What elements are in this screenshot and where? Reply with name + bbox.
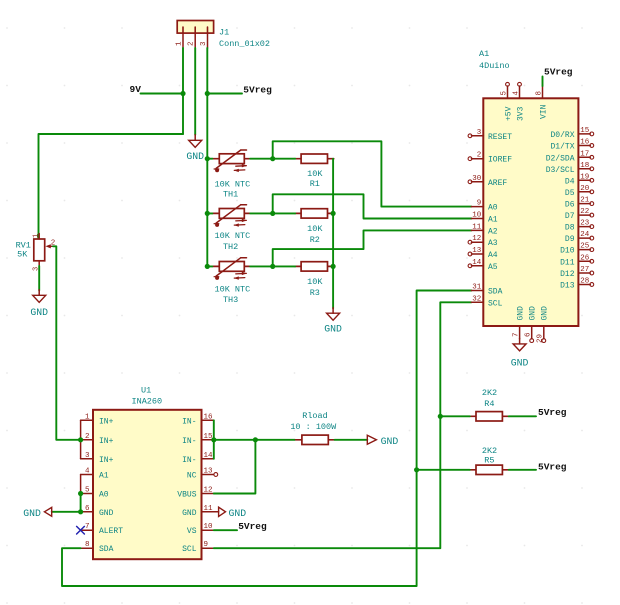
svg-text:R4: R4: [484, 399, 494, 409]
svg-text:SCL: SCL: [182, 545, 197, 554]
svg-text:GND: GND: [324, 323, 342, 334]
A1 pin 19 D4: [565, 173, 594, 186]
svg-text:RESET: RESET: [488, 133, 512, 142]
svg-text:23: 23: [580, 220, 590, 228]
U1 pin 6 GND: [81, 505, 114, 518]
resistor Rload: [296, 435, 335, 444]
wire VIN to 5Vreg: [542, 77, 544, 87]
svg-text:5Vreg: 5Vreg: [538, 461, 567, 472]
svg-text:GND: GND: [511, 357, 529, 368]
svg-text:10K NTC: 10K NTC: [215, 179, 251, 189]
svg-text:12: 12: [472, 235, 481, 243]
U1 pin 1 IN+: [81, 413, 114, 426]
svg-text:GND: GND: [99, 509, 114, 518]
svg-text:11: 11: [472, 223, 482, 231]
svg-text:INA260: INA260: [132, 397, 163, 407]
A1 pin 28 D13: [560, 278, 594, 291]
svg-text:3: 3: [85, 452, 90, 460]
svg-text:A4: A4: [488, 251, 498, 260]
resistor R5: [470, 465, 509, 474]
svg-text:TH2: TH2: [223, 242, 238, 252]
svg-text:6: 6: [524, 332, 532, 337]
svg-text:A5: A5: [488, 263, 498, 272]
svg-text:TH1: TH1: [223, 190, 238, 200]
svg-text:24: 24: [580, 231, 590, 239]
svg-text:U1: U1: [141, 385, 151, 395]
wire RV1 wiper to U1: [53, 246, 80, 439]
svg-text:13: 13: [472, 247, 482, 255]
junction R5 SDA node: [414, 467, 419, 472]
svg-text:8: 8: [85, 541, 90, 549]
svg-text:VIN: VIN: [539, 104, 548, 119]
junction TH1 left: [205, 156, 210, 161]
svg-text:5Vreg: 5Vreg: [538, 407, 567, 418]
thermistor TH2: [212, 205, 249, 227]
svg-text:D12: D12: [560, 270, 575, 279]
wire R1 R2 R3 to ground: [332, 159, 334, 309]
junction R2 right: [331, 211, 336, 216]
junction TH2-R2 node: [270, 211, 275, 216]
U1 pin 15 IN-: [182, 433, 214, 446]
label 5Vreg at R4: [538, 407, 567, 418]
R2 reference label: [310, 235, 320, 245]
svg-text:GND: GND: [23, 508, 41, 519]
junction R3 right: [331, 264, 336, 269]
svg-text:1: 1: [176, 41, 184, 46]
svg-text:5Vreg: 5Vreg: [544, 67, 573, 78]
wire J1 pin3 down: [206, 48, 208, 266]
junction 9V pin1: [180, 91, 185, 96]
A1 pin 13 A4: [468, 247, 498, 260]
svg-text:3: 3: [200, 41, 208, 46]
A1 pin 31 SDA: [471, 284, 502, 297]
wire net SCL: [214, 302, 472, 548]
svg-text:2K2: 2K2: [482, 388, 497, 398]
U1 reference label: [141, 385, 151, 395]
J1 reference label: [219, 28, 229, 38]
wire U1 A0-GND bracket: [80, 494, 82, 512]
svg-text:D1/TX: D1/TX: [550, 143, 574, 152]
label 5Vreg top: [243, 84, 272, 95]
R3 reference label: [310, 288, 320, 298]
A1 pin 17 D2/SDA: [546, 150, 594, 163]
svg-text:5K: 5K: [17, 249, 28, 259]
svg-text:R3: R3: [310, 288, 320, 298]
svg-text:9: 9: [477, 200, 482, 208]
A1 pin 15 D0/RX: [550, 127, 593, 140]
label 5Vreg at VIN: [544, 67, 573, 78]
connector J1 body: [177, 21, 213, 34]
U1 pin 16 IN-: [182, 413, 214, 426]
ground GND under J1: [186, 135, 204, 162]
TH2 reference label: [223, 242, 238, 252]
svg-text:GND: GND: [529, 306, 538, 321]
A1 pin 20 D5: [565, 185, 594, 198]
power label GND right of Rload: [367, 435, 398, 447]
svg-text:D11: D11: [560, 258, 575, 267]
svg-text:2: 2: [85, 433, 90, 441]
svg-text:D10: D10: [560, 247, 575, 256]
R3 value label: [307, 277, 323, 287]
A1 pin 5 +5V: [501, 82, 514, 121]
thermistor TH3: [212, 258, 249, 280]
svg-text:A0: A0: [99, 491, 109, 500]
ground GND under RV1: [30, 290, 48, 318]
svg-text:32: 32: [472, 295, 481, 303]
svg-text:5Vreg: 5Vreg: [238, 521, 267, 532]
A1 pin 30 AREF: [468, 175, 507, 188]
svg-text:D6: D6: [565, 201, 575, 210]
svg-text:1: 1: [33, 234, 41, 238]
svg-text:D13: D13: [560, 282, 575, 291]
A1 pin 18 D3/SCL: [546, 162, 594, 175]
svg-text:A1: A1: [479, 49, 489, 59]
no-connect X on U1 ALERT: [77, 526, 85, 534]
U1 pin 12 VBUS: [177, 487, 214, 500]
svg-text:10K: 10K: [307, 169, 323, 179]
wire R5 to 5Vreg: [509, 469, 536, 471]
U1 pin 9 SCL: [182, 541, 214, 554]
svg-text:4Duino: 4Duino: [479, 61, 510, 71]
svg-text:4: 4: [513, 91, 521, 96]
wire net A1: [273, 194, 472, 218]
svg-text:3V3: 3V3: [516, 106, 525, 121]
TH3 reference label: [223, 295, 238, 305]
A1 pin 6 GND: [524, 306, 537, 343]
TH3 value label: [215, 284, 251, 294]
A1 pin 27 D12: [560, 266, 594, 279]
svg-text:3: 3: [477, 129, 482, 137]
wire U1 A1-A0 bracket: [80, 475, 82, 494]
RV1 pin 1 number: [33, 234, 41, 238]
wire RV1 bottom: [38, 266, 40, 291]
R5 value label: [482, 446, 497, 456]
svg-text:IN-: IN-: [182, 456, 196, 465]
U1 pin 8 SDA: [81, 541, 114, 554]
svg-text:21: 21: [580, 197, 590, 205]
TH1 value label: [215, 179, 251, 189]
wire TH1 to R1: [250, 158, 295, 160]
resistor R3: [295, 262, 334, 271]
label 5Vreg at VS: [238, 521, 267, 532]
svg-text:30: 30: [472, 175, 482, 183]
svg-text:SCL: SCL: [488, 299, 503, 308]
svg-text:IOREF: IOREF: [488, 156, 512, 165]
svg-text:J1: J1: [219, 28, 229, 38]
svg-text:31: 31: [472, 284, 482, 292]
RV1 pin 2 number: [51, 239, 56, 247]
U1 pin 4 A1: [81, 468, 109, 481]
svg-text:GND: GND: [229, 508, 247, 519]
junction TH3-R3 node: [270, 264, 275, 269]
A1 pin 8 VIN: [536, 86, 549, 119]
U1 pin 13 NC: [187, 468, 218, 481]
svg-text:A1: A1: [488, 216, 498, 225]
svg-text:R5: R5: [484, 455, 494, 465]
svg-text:5: 5: [501, 91, 509, 96]
svg-text:GND: GND: [182, 509, 197, 518]
wire pin1 to RV1: [39, 134, 184, 239]
A1 pin 21 D6: [565, 197, 594, 210]
svg-text:ALERT: ALERT: [99, 527, 123, 536]
wire net A0: [273, 141, 472, 206]
svg-text:10 : 100W: 10 : 100W: [290, 422, 337, 432]
svg-text:14: 14: [472, 259, 482, 267]
svg-text:NC: NC: [187, 472, 197, 481]
junction U1 IN+ node: [78, 437, 83, 442]
svg-text:1: 1: [85, 413, 90, 421]
svg-text:7: 7: [512, 332, 520, 337]
svg-text:10K NTC: 10K NTC: [215, 284, 251, 294]
junction pin3 5Vreg: [205, 91, 210, 96]
A1 pin 9 A0: [471, 200, 497, 213]
wire J1 pin1 down: [182, 48, 184, 134]
svg-text:IN-: IN-: [182, 417, 196, 426]
thermistor TH1: [212, 150, 249, 172]
A1 pin 24 D9: [565, 231, 594, 244]
svg-text:14: 14: [204, 452, 214, 460]
R1 reference label: [310, 179, 320, 189]
svg-text:R2: R2: [310, 235, 320, 245]
svg-text:8: 8: [536, 91, 544, 96]
svg-text:D5: D5: [565, 189, 575, 198]
A1 pin 11 A2: [471, 223, 497, 236]
svg-text:D8: D8: [565, 224, 575, 233]
U1 pin 10 VS: [187, 523, 214, 536]
TH1 reference label: [223, 190, 238, 200]
U1 pin 3 IN+: [81, 452, 114, 465]
svg-text:6: 6: [85, 505, 90, 513]
svg-text:25: 25: [580, 243, 590, 251]
Rload value label: [290, 422, 337, 432]
svg-text:A1: A1: [99, 472, 109, 481]
A1 pin 12 A3: [468, 235, 498, 248]
svg-text:GND: GND: [381, 436, 399, 447]
IC A1 4Duino body: [483, 98, 578, 326]
junction Rload left node: [253, 437, 258, 442]
svg-text:10: 10: [204, 523, 214, 531]
wire Rload to GND: [335, 439, 368, 441]
RV1 reference label: [16, 240, 31, 250]
junction TH3 left: [205, 264, 210, 269]
A1 pin 26 D11: [560, 254, 594, 267]
svg-text:18: 18: [580, 162, 589, 170]
A1 pin 23 D8: [565, 220, 594, 233]
svg-text:R1: R1: [310, 179, 320, 189]
wire SDA to R5: [417, 469, 470, 471]
wire TH1 left: [207, 158, 212, 160]
A1 pin 16 D1/TX: [550, 139, 593, 152]
svg-text:9V: 9V: [130, 84, 142, 95]
svg-text:A0: A0: [488, 204, 498, 213]
A1 pin 2 IOREF: [468, 152, 512, 165]
svg-text:16: 16: [204, 413, 214, 421]
label 5Vreg at R5: [538, 461, 567, 472]
svg-text:20: 20: [580, 185, 590, 193]
wire TH2 to R2: [250, 212, 295, 214]
svg-text:A3: A3: [488, 239, 498, 248]
A1 pin 32 SCL: [471, 295, 502, 308]
svg-text:10K: 10K: [307, 277, 323, 287]
svg-text:2: 2: [477, 152, 482, 160]
power label GND at U1 pin11: [214, 507, 246, 519]
svg-text:5Vreg: 5Vreg: [243, 84, 272, 95]
svg-text:VBUS: VBUS: [177, 491, 196, 500]
svg-text:TH3: TH3: [223, 295, 238, 305]
RV1 value label: [17, 249, 28, 259]
svg-text:GND: GND: [541, 306, 550, 321]
J1 pin 2 stub: [188, 33, 196, 48]
A1 pin 3 RESET: [468, 129, 512, 142]
R2 value label: [307, 224, 323, 234]
junction U1 GND node: [78, 509, 83, 514]
svg-text:19: 19: [580, 173, 589, 181]
svg-text:IN+: IN+: [99, 417, 114, 426]
svg-text:22: 22: [580, 208, 589, 216]
svg-text:Conn_01x02: Conn_01x02: [219, 39, 270, 49]
U1 pin 11 GND: [182, 505, 214, 518]
svg-text:GND: GND: [516, 306, 525, 321]
svg-text:IN-: IN-: [182, 437, 196, 446]
A1 pin 25 D10: [560, 243, 594, 256]
resistor R2: [295, 209, 334, 218]
wire TH2 left: [207, 212, 212, 214]
J1 pin 3 stub: [200, 33, 208, 48]
svg-text:+5V: +5V: [504, 106, 513, 121]
R1 value label: [307, 169, 323, 179]
svg-text:Rload: Rload: [302, 411, 328, 421]
op-amp U1 body: [93, 410, 202, 559]
junction TH2 left: [205, 211, 210, 216]
svg-text:AREF: AREF: [488, 179, 507, 188]
svg-text:D0/RX: D0/RX: [550, 131, 574, 140]
A1 value label: [479, 61, 510, 71]
svg-text:16: 16: [580, 139, 590, 147]
A1 pin 7 GND: [512, 306, 525, 339]
wire VBUS to node: [214, 440, 256, 494]
wire pin3 to 5Vreg: [207, 93, 242, 95]
svg-text:D2/SDA: D2/SDA: [546, 154, 575, 163]
svg-text:9: 9: [204, 541, 209, 549]
svg-text:28: 28: [580, 278, 589, 286]
resistor R1: [295, 154, 334, 163]
resistor R4: [470, 412, 509, 421]
R5 reference label: [484, 455, 494, 465]
wire TH3 to R3: [250, 265, 295, 267]
svg-text:GND: GND: [186, 151, 204, 162]
svg-text:VS: VS: [187, 527, 197, 536]
junction TH1-R1 node: [270, 156, 275, 161]
A1 pin 14 A5: [468, 259, 498, 272]
A1 pin 22 D7: [565, 208, 594, 221]
svg-text:11: 11: [204, 505, 214, 513]
svg-text:IN+: IN+: [99, 437, 114, 446]
wire IN- to Rload: [214, 439, 295, 441]
wire U1 IN+ bracket: [80, 420, 82, 459]
svg-text:7: 7: [85, 523, 90, 531]
wire J1 pin2 down: [194, 48, 196, 135]
R4 reference label: [484, 399, 494, 409]
Rload reference label: [302, 411, 328, 421]
TH2 value label: [215, 231, 251, 241]
U1 pin 5 A0: [81, 487, 109, 500]
svg-text:D9: D9: [565, 235, 575, 244]
R4 value label: [482, 388, 497, 398]
svg-text:5: 5: [85, 487, 90, 495]
U1 pin 2 IN+: [81, 433, 114, 446]
power label GND left of U1: [23, 507, 51, 519]
svg-text:12: 12: [204, 487, 213, 495]
wire net SDA: [62, 291, 471, 587]
wire SCL to R4: [440, 415, 470, 417]
svg-text:GND: GND: [30, 307, 48, 318]
svg-text:15: 15: [580, 127, 590, 135]
wire 9V to pin1: [141, 93, 184, 95]
J1 value label: [219, 39, 270, 49]
A1 pin 4 3V3: [513, 82, 526, 121]
label 9V: [130, 84, 142, 95]
A1 reference label: [479, 49, 489, 59]
svg-text:4: 4: [85, 468, 90, 476]
svg-text:10K: 10K: [307, 224, 323, 234]
A1 pin 10 A1: [471, 212, 497, 225]
ground GND under A1: [511, 338, 529, 368]
svg-text:2K2: 2K2: [482, 446, 497, 456]
svg-text:10K NTC: 10K NTC: [215, 231, 251, 241]
junction U1 A0 node: [78, 491, 83, 496]
junction U1 IN- node: [211, 437, 216, 442]
wire TH3 left: [207, 265, 212, 267]
RV1 pin 3 number: [33, 267, 41, 271]
svg-text:SDA: SDA: [99, 545, 114, 554]
wire R4 to 5Vreg: [509, 415, 536, 417]
svg-text:29: 29: [537, 334, 545, 343]
svg-text:13: 13: [204, 468, 214, 476]
svg-text:2: 2: [188, 41, 196, 46]
wire VS to 5Vreg: [214, 529, 237, 531]
svg-text:17: 17: [580, 150, 589, 158]
svg-text:10: 10: [472, 212, 482, 220]
svg-text:IN+: IN+: [99, 456, 114, 465]
svg-text:D4: D4: [565, 177, 575, 186]
wire net A2: [273, 230, 472, 266]
wire U1 GND left: [52, 511, 81, 513]
wire U1 IN- bracket: [213, 420, 215, 459]
U1 pin 7 ALERT: [81, 523, 124, 536]
ground GND below R3: [324, 308, 342, 335]
U1 value label: [132, 397, 163, 407]
potentiometer RV1: [34, 234, 53, 267]
A1 pin 29 GND: [537, 306, 550, 343]
svg-text:D7: D7: [565, 212, 575, 221]
junction R4 SCL node: [438, 414, 443, 419]
svg-text:SDA: SDA: [488, 288, 503, 297]
svg-text:D3/SCL: D3/SCL: [546, 166, 575, 175]
U1 pin 14 IN-: [182, 452, 214, 465]
svg-text:27: 27: [580, 266, 589, 274]
svg-text:A2: A2: [488, 227, 498, 236]
J1 pin 1 stub: [176, 33, 184, 48]
svg-text:26: 26: [580, 254, 590, 262]
